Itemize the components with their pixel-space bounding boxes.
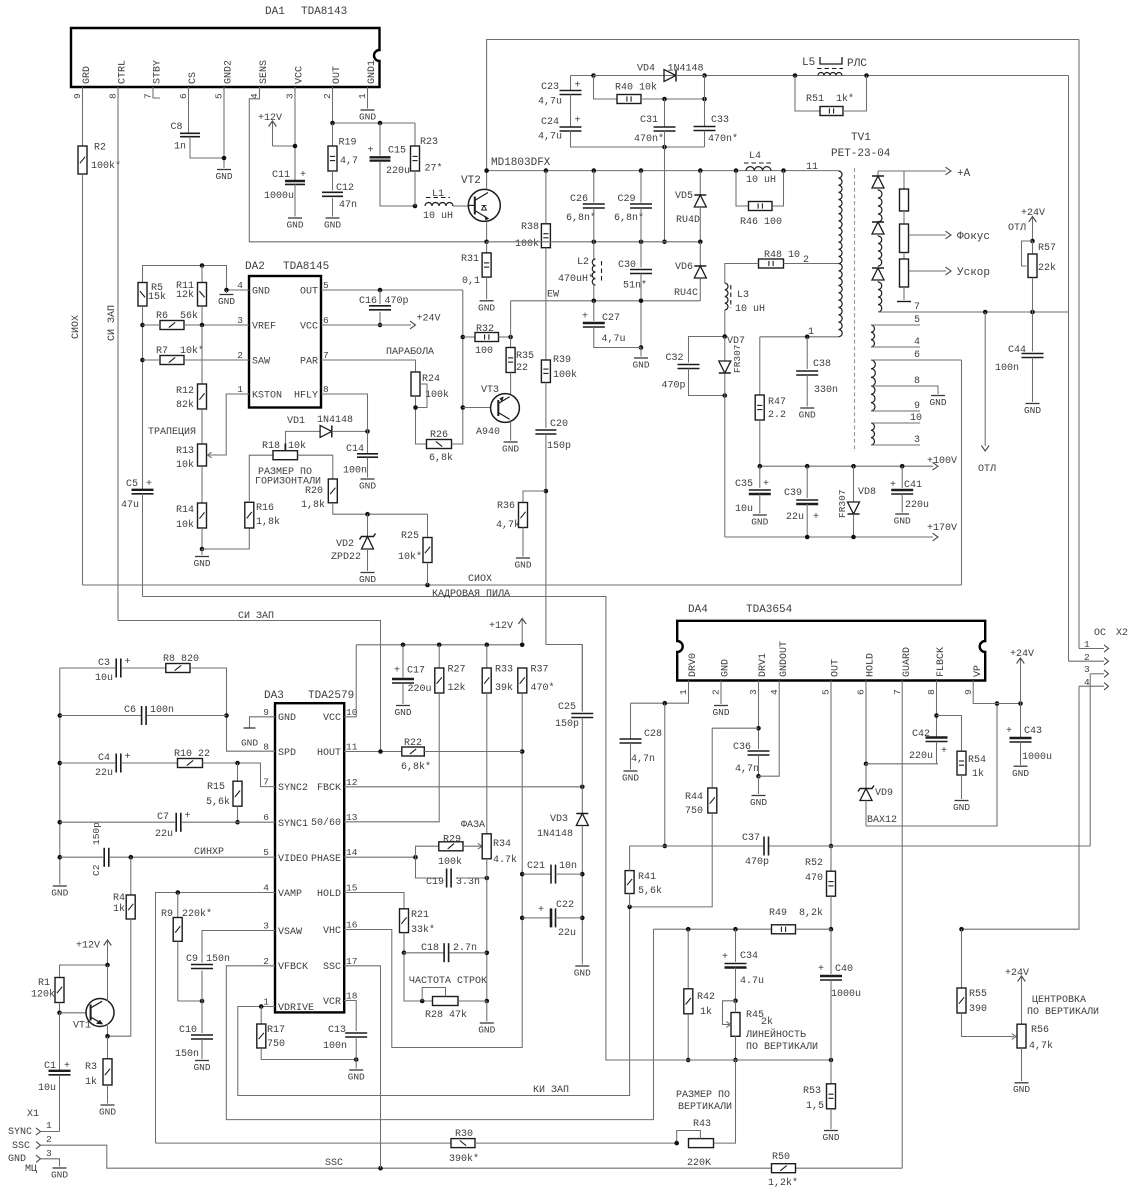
svg-text:150p: 150p <box>555 719 579 730</box>
label MC <box>25 1164 37 1175</box>
svg-text:470*: 470* <box>531 682 555 694</box>
svg-text:1,5: 1,5 <box>806 1101 824 1112</box>
resistor R5 <box>138 283 166 307</box>
wire VDRIVE / KI ZAP loop <box>238 907 630 1096</box>
capacitor C12 <box>322 171 357 211</box>
svg-text:+24V: +24V <box>417 314 441 325</box>
svg-text:VT3: VT3 <box>481 385 499 396</box>
svg-text:Фокус: Фокус <box>957 231 990 243</box>
wire R45 bottom <box>733 1036 738 1062</box>
resistor R1 <box>31 978 64 1003</box>
svg-text:SSC: SSC <box>12 1141 30 1152</box>
wire DA1.2 OUT node <box>330 87 415 125</box>
wire X2.4 riser to R49 line <box>959 686 1079 931</box>
arrow OTL down <box>978 312 996 475</box>
wire C7 row SYNC1 <box>60 821 275 823</box>
svg-text:VHC: VHC <box>323 926 341 937</box>
svg-text:R22: R22 <box>404 738 422 749</box>
wire DA1.5 GND2 down <box>222 87 227 168</box>
pin 7 DA2.PAR <box>300 350 329 368</box>
svg-text:MD1803DFX: MD1803DFX <box>491 157 551 169</box>
svg-text:1k: 1k <box>85 1076 97 1088</box>
label OTL near R57 <box>1008 223 1026 234</box>
svg-text:VCR: VCR <box>323 997 341 1008</box>
svg-text:2: 2 <box>711 689 722 695</box>
svg-text:100n: 100n <box>995 363 1019 374</box>
capacitor C43 <box>1006 704 1052 764</box>
svg-text:220k*: 220k* <box>182 908 212 920</box>
svg-text:TV1: TV1 <box>851 132 871 144</box>
wire C5 to KADR line <box>142 494 144 597</box>
svg-text:13: 13 <box>346 812 358 823</box>
wire C24 to rail <box>571 131 705 149</box>
wire DA4.1 DRV0 node <box>631 681 689 706</box>
svg-text:12: 12 <box>346 777 358 788</box>
ground VD3/C21/C22 <box>574 966 591 979</box>
capacitor C35 <box>735 466 771 515</box>
svg-text:R31: R31 <box>461 254 479 265</box>
diode VD7 FR307 <box>719 336 745 396</box>
wire EW riser <box>510 301 512 337</box>
svg-text:R53: R53 <box>803 1086 821 1097</box>
power +12V arrow (DA3 rail) <box>489 619 526 645</box>
wire R30 right <box>475 1142 677 1144</box>
svg-text:GND: GND <box>278 713 296 724</box>
svg-text:DRV1: DRV1 <box>758 653 769 677</box>
svg-text:R7 10k*: R7 10k* <box>156 345 204 357</box>
svg-text:SYNC2: SYNC2 <box>278 783 308 794</box>
svg-text:15k: 15k <box>148 291 166 303</box>
wire SSC from X1.2 <box>41 1145 902 1170</box>
pin 2 DA3.VFBCK <box>263 956 308 973</box>
svg-text:8: 8 <box>914 376 920 387</box>
svg-text:C42: C42 <box>912 729 930 740</box>
svg-text:R10 22: R10 22 <box>174 749 210 760</box>
svg-text:TDA3654: TDA3654 <box>746 604 793 616</box>
capacitor C2 <box>91 822 109 876</box>
ground R28 <box>478 1023 495 1036</box>
svg-text:HOLD: HOLD <box>317 889 341 900</box>
svg-text:СИОХ: СИОХ <box>468 574 492 585</box>
pin 1 DA2.KSTON <box>237 384 282 402</box>
svg-text:SAW: SAW <box>252 357 270 368</box>
svg-text:VD4: VD4 <box>637 64 655 75</box>
resistor R57 trimmer <box>1022 239 1057 278</box>
wire SSC riser from DA3.17 <box>344 966 380 1168</box>
wire C14 to GND <box>367 458 369 478</box>
wire DA2.6 VCC line <box>321 324 411 326</box>
resistor R30 <box>449 1129 479 1165</box>
svg-text:C9: C9 <box>186 954 198 965</box>
resistor R55 <box>957 929 987 1015</box>
resistor R27 <box>435 645 466 694</box>
wire C43 to GND <box>1020 742 1022 765</box>
wire C27 bottom to GND <box>594 327 641 357</box>
svg-text:+24V: +24V <box>1021 208 1045 219</box>
svg-text:22u: 22u <box>155 829 173 840</box>
svg-text:100n: 100n <box>150 705 174 716</box>
wire VT2 collector to bus <box>486 171 488 190</box>
svg-text:220u: 220u <box>909 751 933 762</box>
svg-text:R17: R17 <box>267 1025 285 1036</box>
svg-text:+: + <box>722 952 728 963</box>
svg-text:470: 470 <box>805 873 823 884</box>
svg-text:+: + <box>64 1061 70 1072</box>
svg-text:150n: 150n <box>175 1049 199 1060</box>
pin 14 DA3.PHASE <box>311 847 358 865</box>
pin 15 DA3.HOLD <box>317 883 358 901</box>
connector X2 OC <box>1094 628 1128 639</box>
svg-text:1: 1 <box>237 384 243 395</box>
svg-text:C11: C11 <box>272 170 290 181</box>
svg-text:GND: GND <box>1012 768 1029 779</box>
wire +12V rail <box>356 643 524 648</box>
pin 12 DA3.FBCK <box>317 777 358 794</box>
svg-text:VT2: VT2 <box>461 175 481 187</box>
pin 5 DA2.OUT <box>300 280 329 298</box>
wire C37 line <box>665 674 1090 846</box>
svg-text:39k: 39k <box>495 682 513 694</box>
svg-text:750: 750 <box>267 1039 285 1050</box>
svg-text:4,7k: 4,7k <box>1029 1040 1053 1052</box>
resistor R47 <box>755 337 786 421</box>
svg-text:+12V: +12V <box>76 941 100 952</box>
wire R44 bottom <box>627 813 712 909</box>
svg-text:1k: 1k <box>972 768 984 780</box>
diode VD3 1N4148 <box>537 787 588 965</box>
svg-text:DA3: DA3 <box>264 690 284 702</box>
label RAZMER PO VERTIKALI <box>676 1090 732 1113</box>
svg-text:GND: GND <box>799 410 816 421</box>
wire C4 row <box>60 762 178 764</box>
svg-text:VFBCK: VFBCK <box>278 962 308 973</box>
wire HFLY pin to node <box>321 394 368 431</box>
svg-text:12k: 12k <box>448 682 466 694</box>
svg-text:+24V: +24V <box>1010 649 1034 660</box>
svg-text:390: 390 <box>969 1004 987 1015</box>
diode VD4 1N4148 <box>594 64 705 82</box>
ground GND1 <box>359 110 376 123</box>
power +24V arrow (DA2) <box>410 314 441 329</box>
resistor R16 <box>245 502 280 528</box>
transformer HV secondary with rectifiers <box>872 171 884 312</box>
svg-text:R47: R47 <box>768 397 786 408</box>
wire R43 right riser <box>714 1060 736 1143</box>
pin 3 DA4.DRV1 <box>748 653 769 695</box>
svg-text:100n: 100n <box>323 1041 347 1052</box>
svg-text:C6: C6 <box>124 705 136 716</box>
svg-text:DA1: DA1 <box>265 6 285 18</box>
svg-text:11: 11 <box>806 162 818 173</box>
ground C28 <box>622 771 639 784</box>
svg-text:L5: L5 <box>802 57 815 69</box>
wire C35 to GND <box>759 494 761 514</box>
svg-text:100n: 100n <box>343 466 367 477</box>
svg-text:C41: C41 <box>904 480 922 491</box>
svg-text:5,6k: 5,6k <box>638 885 662 897</box>
resistor divider chain (HV) <box>897 171 911 302</box>
svg-text:16: 16 <box>346 920 358 931</box>
pin 16 DA3.VHC <box>323 920 358 938</box>
resistor R25 <box>398 514 432 563</box>
transformer core <box>854 168 856 452</box>
wire C13 bottom <box>355 1037 357 1069</box>
capacitor C28 <box>620 703 663 765</box>
svg-text:C30: C30 <box>618 260 636 271</box>
resistor R50 <box>768 1152 798 1189</box>
svg-text:+: + <box>538 905 544 916</box>
pin 4 DA3.VAMP <box>263 883 302 901</box>
svg-text:ЧАСТОТА СТРОК: ЧАСТОТА СТРОК <box>409 976 487 987</box>
svg-text:GND: GND <box>632 360 649 371</box>
svg-text:3: 3 <box>1084 664 1090 675</box>
transistor VT3 A940 <box>463 373 520 439</box>
svg-text:GND: GND <box>193 558 210 569</box>
wire VT3 collector to GND <box>510 420 512 441</box>
svg-text:СИОХ: СИОХ <box>71 315 82 339</box>
resistor R19 <box>328 123 358 171</box>
capacitor C19 <box>426 869 480 889</box>
svg-text:SSC: SSC <box>323 962 341 973</box>
resistor R12 <box>176 325 207 411</box>
svg-text:3: 3 <box>263 921 269 932</box>
capacitor C31 <box>634 99 676 145</box>
wire KADROVAYA PILA line <box>143 589 689 1060</box>
wire VAMP row <box>156 890 276 1143</box>
svg-text:+: + <box>125 752 131 763</box>
svg-text:+A: +A <box>957 168 971 180</box>
svg-text:1,8k: 1,8k <box>301 499 325 511</box>
svg-text:+170V: +170V <box>927 523 957 534</box>
svg-text:C4: C4 <box>98 753 110 764</box>
svg-text:R26: R26 <box>430 430 448 441</box>
resistor R17 <box>257 1007 285 1051</box>
svg-text:33k*: 33k* <box>411 924 435 936</box>
svg-text:ОС: ОС <box>1094 628 1106 639</box>
svg-text:5: 5 <box>263 847 269 858</box>
pin 3 X2 <box>1084 664 1109 677</box>
svg-text:DA4: DA4 <box>688 604 708 616</box>
svg-text:6,8n*: 6,8n* <box>614 212 644 224</box>
capacitor C32 <box>662 353 700 392</box>
wire DA1.9 to R2 <box>82 87 84 146</box>
resistor R33 <box>482 645 513 694</box>
capacitor C6 <box>60 705 227 725</box>
svg-text:5: 5 <box>214 93 225 99</box>
ground C27/C30 <box>632 358 649 371</box>
svg-text:1: 1 <box>678 689 689 695</box>
wire DA1 pin7 NC tick <box>153 87 160 98</box>
svg-text:R2: R2 <box>94 143 106 154</box>
wire C1 to SYNC pin <box>59 1075 61 1132</box>
resistor R18 trimmer <box>262 440 306 460</box>
svg-text:GND: GND <box>822 1132 839 1143</box>
svg-text:СИ ЗАП: СИ ЗАП <box>238 611 274 622</box>
svg-text:+12V: +12V <box>489 621 513 632</box>
pin 5 DA1.GND2 <box>214 60 235 99</box>
op-amp U DA4 TDA3654 box <box>677 604 985 681</box>
svg-text:390k*: 390k* <box>449 1153 479 1165</box>
svg-text:6: 6 <box>178 93 189 99</box>
svg-text:100: 100 <box>475 346 493 357</box>
svg-text:6,8k*: 6,8k* <box>401 761 431 773</box>
svg-text:GND: GND <box>215 171 232 182</box>
capacitor C22 <box>522 900 582 939</box>
svg-text:L4: L4 <box>749 151 761 162</box>
wire HOLD row <box>344 893 404 909</box>
svg-text:4.7k: 4.7k <box>493 854 517 866</box>
svg-text:FR307: FR307 <box>837 489 848 518</box>
svg-text:C22: C22 <box>556 900 574 911</box>
svg-text:7: 7 <box>143 93 154 99</box>
pin 8 DA2.HFLY <box>294 384 329 402</box>
svg-text:DA2: DA2 <box>245 261 265 273</box>
pin 18 DA3.VCR <box>323 991 358 1009</box>
power +24V arrow (R56) <box>1005 968 1029 1024</box>
pin 8 DA4.FLBCK <box>926 647 947 695</box>
svg-text:GND: GND <box>324 220 341 231</box>
capacitor C29 <box>614 171 652 224</box>
node +A output <box>878 167 971 180</box>
resistor R11 <box>176 266 207 307</box>
ground C36 <box>750 796 767 809</box>
svg-text:OUT: OUT <box>300 287 318 298</box>
svg-text:11: 11 <box>346 742 358 753</box>
resistor R26 <box>427 430 454 464</box>
wire DA4.7 GUARD down <box>901 681 903 1169</box>
wire C39 to +170 rail <box>806 504 808 537</box>
svg-text:TDA8143: TDA8143 <box>301 6 347 18</box>
svg-text:HFLY: HFLY <box>294 391 318 402</box>
svg-text:R24: R24 <box>422 374 440 385</box>
label RAZMER PO GORIZONTALI <box>255 467 321 488</box>
svg-text:1: 1 <box>263 997 269 1008</box>
svg-text:SYNC: SYNC <box>8 1127 32 1138</box>
wire VCR row <box>344 1001 356 1032</box>
svg-text:GND: GND <box>218 296 235 307</box>
svg-text:КИ ЗАП: КИ ЗАП <box>533 1085 569 1096</box>
wire C11 to GND <box>294 184 296 216</box>
svg-text:R33: R33 <box>495 665 513 676</box>
svg-text:C35: C35 <box>735 479 753 490</box>
wire R11 bottom <box>201 306 203 325</box>
svg-text:SYNC1: SYNC1 <box>278 819 308 830</box>
wire C36 top to R44 <box>712 728 758 788</box>
capacitor C39 <box>784 466 819 523</box>
wire VREF row <box>143 323 250 328</box>
pin 2 X2 <box>1069 652 1109 665</box>
wire C31 node down to EW-SENS rail <box>662 147 667 244</box>
wire C15 bottom <box>380 162 417 208</box>
svg-text:GND1: GND1 <box>367 60 378 84</box>
ground R14 <box>193 557 210 570</box>
svg-text:ТРАПЕЦИЯ: ТРАПЕЦИЯ <box>148 427 196 438</box>
svg-text:ЦЕНТРОВКА: ЦЕНТРОВКА <box>1032 995 1086 1006</box>
svg-text:0,1: 0,1 <box>462 276 480 287</box>
svg-text:4: 4 <box>769 689 780 695</box>
svg-text:4,7n: 4,7n <box>735 764 759 775</box>
svg-text:ОТЛ: ОТЛ <box>1008 223 1026 234</box>
wire DA1.3 VCC to C11 <box>293 87 298 181</box>
ground R3 <box>99 1105 116 1118</box>
svg-text:C8: C8 <box>171 122 183 133</box>
svg-text:3: 3 <box>914 435 920 446</box>
resistor R32 <box>463 324 499 357</box>
capacitor C40 <box>818 929 861 1000</box>
svg-text:R54: R54 <box>968 755 986 766</box>
svg-text:GND2: GND2 <box>224 60 235 84</box>
svg-text:GND: GND <box>478 302 495 313</box>
wire R23 bottom <box>414 171 416 206</box>
svg-text:470p: 470p <box>662 381 686 392</box>
op-amp U DA1 TDA8143 box <box>71 6 380 87</box>
svg-text:4,7u: 4,7u <box>602 334 626 345</box>
svg-text:2: 2 <box>803 255 809 266</box>
svg-text:10u: 10u <box>735 504 753 515</box>
wire CIOX vertical <box>71 174 83 585</box>
wire C30 to GND node <box>639 274 644 350</box>
wire R16 top to R18 left <box>249 455 273 502</box>
svg-text:1000u: 1000u <box>831 989 861 1000</box>
wire C2 row VIDEO <box>60 847 275 860</box>
svg-text:470p: 470p <box>385 296 409 307</box>
power +12V arrow (DA1) <box>258 113 295 146</box>
svg-text:50/60: 50/60 <box>311 817 341 829</box>
wire VD9 loop to VP node <box>866 701 999 826</box>
svg-text:22k: 22k <box>1038 262 1056 274</box>
capacitor C42 <box>909 729 948 762</box>
svg-text:7: 7 <box>263 777 269 788</box>
svg-text:+: + <box>1006 726 1012 737</box>
svg-text:C2: C2 <box>91 864 102 876</box>
svg-text:GND: GND <box>894 516 911 527</box>
wire FLBCK to R54 <box>937 716 962 752</box>
svg-text:C37: C37 <box>742 833 760 844</box>
wire DA3.9 to GND <box>250 717 276 728</box>
wire KSTON to R13 wiper <box>208 394 250 458</box>
transistor VT2 MD1803DFX <box>461 175 500 221</box>
svg-text:GND: GND <box>574 968 591 979</box>
svg-text:FLBCK: FLBCK <box>936 647 947 677</box>
wire R33 down to R34 <box>486 693 488 834</box>
resistor R43 trimmer <box>674 1119 713 1169</box>
svg-text:120k: 120k <box>31 989 55 1001</box>
wire R5 bottom chain <box>140 306 145 490</box>
svg-text:ВЕРТИКАЛИ: ВЕРТИКАЛИ <box>678 1102 732 1113</box>
wire R55 to R56 wiper <box>962 1013 1017 1039</box>
svg-text:220K: 220K <box>687 1158 711 1169</box>
wire R18 right to R20 <box>298 455 333 479</box>
svg-text:R38: R38 <box>521 222 539 233</box>
wire DA4.8 FLBCK node <box>934 681 939 738</box>
svg-text:6: 6 <box>856 689 867 695</box>
svg-text:2: 2 <box>322 93 333 99</box>
capacitor C20 <box>535 419 571 452</box>
wire R28 right to GND <box>458 1001 487 1022</box>
resistor R51 <box>795 76 867 116</box>
svg-text:9: 9 <box>963 689 974 695</box>
svg-text:GUARD: GUARD <box>902 647 913 677</box>
svg-text:R23: R23 <box>420 137 438 148</box>
svg-text:VD3: VD3 <box>550 814 568 825</box>
wire VD1 cathode to HFLY node <box>332 429 370 434</box>
svg-text:7: 7 <box>914 302 920 313</box>
ground R36 <box>514 558 531 571</box>
label CENTROVKA <box>1027 995 1099 1018</box>
svg-text:VD1: VD1 <box>287 416 305 427</box>
svg-text:51n*: 51n* <box>623 280 647 292</box>
svg-text:1N4148: 1N4148 <box>317 415 353 426</box>
